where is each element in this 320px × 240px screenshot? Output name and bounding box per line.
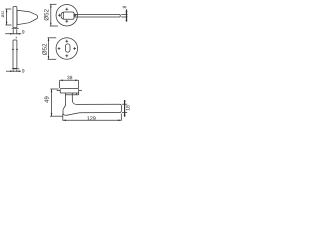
knob side view: knob cone (17, 10, 37, 24)
dimension grip thickness: extension lines (121, 14, 127, 16)
dimension rose thickness top: arrows (10, 33, 13, 35)
dimension rose thickness bottom: extension lines (12, 70, 14, 72)
key rose side view: door surface line (12, 68, 20, 70)
lever front view: neck flange line (62, 12, 64, 19)
key rose front view: center mark left (58, 47, 61, 50)
dimension 129: extension lines (62, 114, 64, 121)
dimension rose thickness top: dimension line (5, 33, 21, 35)
key rose front view: keyhole slot (65, 44, 70, 52)
lever side view: neck collar line (65, 94, 79, 96)
dimension 129: label (87, 116, 95, 120)
dimension rose diameter front: dimension line (50, 4, 52, 26)
lever front view: rose circle (56, 4, 78, 26)
dimension rose diameter front: extension lines (50, 3, 57, 5)
dimension key rose diameter: label (42, 44, 47, 55)
lever side view: spindle centerline left (57, 90, 61, 92)
dimension rose thickness bottom: dimension line (6, 70, 21, 72)
dimension key rose diameter: arrows (48, 38, 50, 41)
dimension key rose diameter: dimension line (48, 38, 50, 60)
lever front view: center mark bottom (65, 20, 68, 23)
knob side view: door surface line (12, 27, 19, 29)
dimension 38: extension lines (59, 80, 61, 88)
dimension knob diameter: label (1, 11, 4, 18)
dimension knob diameter: dimension line (6, 9, 8, 25)
key rose front view: center mark top (65, 40, 68, 43)
dimension 49: dimension line (51, 89, 53, 116)
dimension rose diameter front: arrows (50, 4, 52, 7)
key rose front view: center mark right (73, 47, 76, 50)
key rose side view: plate (13, 40, 17, 68)
knob side view: rose plate (13, 7, 17, 28)
dimension rose thickness bottom: arrows (10, 70, 13, 72)
dimension knob diameter: arrows (6, 9, 8, 12)
dimension grip width side: arrows (124, 101, 126, 104)
lever front view: neck stadium (61, 12, 74, 19)
dimension grip width side: label (126, 105, 130, 110)
lever side view: spindle centerline right (79, 90, 82, 92)
dimension 129: arrows (63, 120, 66, 122)
dimension 38: dimension line (60, 79, 79, 81)
dimension 49: extension lines (50, 88, 58, 90)
dimension 129: dimension line (63, 119, 122, 121)
dimension grip width side: dimension line (124, 100, 126, 117)
dimension grip thickness: dimension line (126, 9, 128, 21)
dimension 38: label (67, 76, 72, 80)
dimension rose thickness top: label 9 (22, 30, 24, 34)
dimension grip thickness: arrows (126, 11, 128, 14)
lever front view: center mark left (58, 14, 61, 17)
dimension key rose diameter: extension lines (48, 37, 57, 39)
dimension rose thickness top: extension lines (12, 29, 14, 34)
dimension grip width side: extension lines (122, 103, 127, 105)
lever side view: rose disk (60, 89, 78, 94)
dimension 38: arrows (60, 80, 63, 82)
lever side view: screw tab (76, 93, 78, 95)
dimension grip thickness: label 8 (123, 6, 127, 8)
key rose side view: center ticks mid (12, 48, 14, 50)
dimension rose thickness bottom: label 9 (22, 69, 24, 73)
lever side view: handle profile (63, 93, 121, 115)
lever front view: center mark right (74, 14, 77, 17)
key rose side view: center tick above (15, 37, 17, 39)
lever front view: center mark top (65, 8, 68, 11)
lever front view: grip bar (74, 15, 120, 18)
dimension 49: label (44, 97, 48, 103)
key rose front view: circle (56, 38, 78, 60)
key rose front view: center mark bottom (65, 54, 68, 57)
dimension knob diameter: extension lines (5, 8, 11, 10)
dimension 49: arrows (51, 89, 53, 92)
dimension rose diameter front: label (44, 9, 49, 20)
